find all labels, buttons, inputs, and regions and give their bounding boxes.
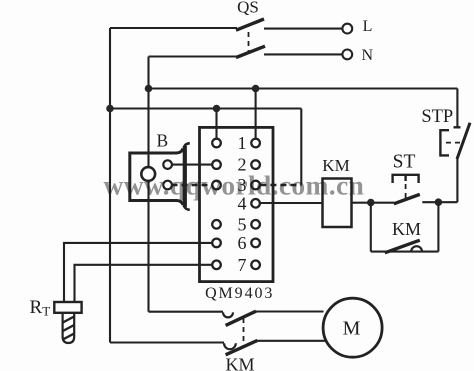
contact KM main top blade xyxy=(226,311,256,325)
svg-text:B: B xyxy=(156,131,168,151)
IC U1 QM9403 box xyxy=(200,127,274,281)
switch QS link dashed xyxy=(248,32,250,53)
sensor B pole bar xyxy=(183,146,187,207)
thermistor RT probe body xyxy=(63,313,75,343)
wire B to pin3 dashed xyxy=(172,184,213,186)
wire pin1 left drop xyxy=(215,109,217,139)
wire pin7 to RT xyxy=(75,265,213,302)
svg-text:1: 1 xyxy=(238,133,247,153)
switch QS blade lower xyxy=(236,46,265,57)
svg-text:ST: ST xyxy=(393,152,416,173)
contact KM main link dashed xyxy=(243,318,245,348)
wire bus2 to KM main top xyxy=(149,311,224,313)
sensor B outline xyxy=(130,149,183,205)
wire pin3 riser xyxy=(300,109,302,185)
wire node row y88 horizontal xyxy=(149,87,458,89)
svg-text:RT: RT xyxy=(30,297,51,319)
pushbutton STP link dashed xyxy=(446,142,461,144)
svg-text:STP: STP xyxy=(421,107,453,127)
wire pin3 dashed right xyxy=(260,184,301,186)
wire B to pin2 xyxy=(172,164,213,166)
pin 1 right xyxy=(251,139,260,148)
pushbutton ST cap xyxy=(393,175,419,183)
contact KM main top hook xyxy=(223,312,233,317)
terminal N xyxy=(342,50,352,60)
wire pin6 to RT xyxy=(64,243,212,302)
svg-text:N: N xyxy=(362,47,374,64)
svg-text:KM: KM xyxy=(392,219,421,239)
pushbutton STP blade xyxy=(457,123,470,159)
svg-text:KM: KM xyxy=(225,355,254,371)
junction dot pin1 left xyxy=(213,105,221,113)
svg-text:5: 5 xyxy=(238,214,247,234)
junction dot ST right xyxy=(435,198,443,206)
wire QS to L terminal xyxy=(264,28,342,30)
pin 2 right xyxy=(251,160,260,169)
wire KM aux branch bottom xyxy=(371,251,439,253)
junction dot bus1 y108 xyxy=(106,105,114,113)
junction dot coil right xyxy=(367,199,375,207)
wire QS to N terminal xyxy=(264,53,342,55)
pushbutton STP contact tick xyxy=(454,126,461,128)
thermistor RT probe hatch xyxy=(61,316,76,349)
terminal L xyxy=(342,24,352,34)
contact KM main bottom hook xyxy=(224,343,236,349)
pushbutton ST link dashed xyxy=(405,184,407,198)
wire STP upper lead xyxy=(456,89,458,128)
contact KM main bottom blade xyxy=(226,340,258,354)
svg-text:QM9403: QM9403 xyxy=(205,285,274,302)
sensor B pole bottom flare xyxy=(184,206,190,210)
pin 5 left xyxy=(212,220,221,229)
svg-text:L: L xyxy=(363,18,373,35)
wire bus1 to KM main bottom xyxy=(110,341,224,343)
wire N bus second vertical xyxy=(147,57,149,312)
wire KM bottom to motor xyxy=(257,340,325,342)
wire KM aux branch left xyxy=(370,203,372,252)
junction dot bus2 y88 xyxy=(145,85,153,93)
wire pin1 right drop xyxy=(255,89,257,139)
switch QS blade upper xyxy=(236,19,264,30)
pin 3 right xyxy=(251,181,260,190)
svg-text:www.qqworld.com.cn: www.qqworld.com.cn xyxy=(104,170,365,201)
wire coil to ST xyxy=(352,202,395,204)
svg-text:M: M xyxy=(343,318,361,340)
svg-text:6: 6 xyxy=(238,233,247,253)
wire KM aux branch right xyxy=(437,202,439,251)
pin 7 left xyxy=(212,261,221,270)
contact KM aux dome xyxy=(411,246,422,251)
contact KM aux blade xyxy=(385,240,420,253)
pin 1 left xyxy=(212,139,221,148)
pin 3 left xyxy=(212,181,221,190)
pin 4 right xyxy=(251,199,260,208)
pushbutton STP cap xyxy=(440,130,449,155)
pin 7 right xyxy=(251,261,260,270)
pin 5 right xyxy=(251,220,260,229)
wire N horizontal to QS xyxy=(149,55,238,57)
sensor B terminal lower xyxy=(163,181,172,190)
sensor B pole top flare xyxy=(184,143,190,147)
thermistor RT head xyxy=(54,302,81,313)
pushbutton ST blade xyxy=(394,194,420,203)
wire L bus left vertical xyxy=(109,28,111,343)
wire STP lower lead xyxy=(456,159,458,203)
contactor coil KM xyxy=(323,179,352,228)
sensor B terminal upper xyxy=(163,160,172,169)
motor M circle xyxy=(323,298,382,357)
pin 6 left xyxy=(212,239,221,248)
svg-text:QS: QS xyxy=(237,0,259,17)
svg-text:7: 7 xyxy=(238,255,247,275)
wire L top horizontal to QS xyxy=(110,27,237,29)
sensor B electrode terminal xyxy=(141,167,155,181)
junction dot pin1 right xyxy=(252,85,260,93)
wire node row y108 horizontal xyxy=(110,107,301,109)
pin 2 left xyxy=(212,160,221,169)
wire KM top to motor xyxy=(256,310,324,312)
wire ST to corner xyxy=(422,201,457,203)
wire pin4 to KM coil xyxy=(260,202,323,204)
pin 6 right xyxy=(251,239,260,248)
